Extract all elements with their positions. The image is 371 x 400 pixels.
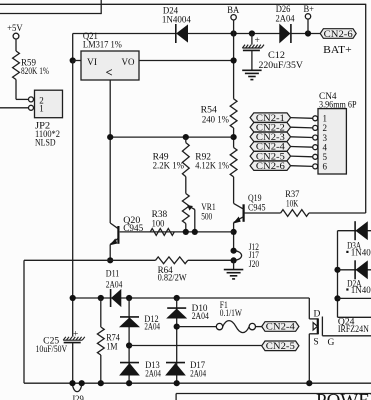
- diode D24: [175, 24, 177, 43]
- connector CN4 body: [318, 109, 346, 174]
- node ADJ rail junction: [107, 134, 113, 140]
- svg-text:3: 3: [323, 133, 328, 143]
- wire R64 row left: [24, 259, 156, 261]
- wire left drop: [23, 260, 25, 383]
- diode D10: [167, 307, 186, 309]
- node right ladder junction: [334, 295, 340, 301]
- svg-text:LM317 1%: LM317 1%: [83, 40, 122, 50]
- svg-text:+: +: [73, 330, 78, 340]
- wire D10 column: [176, 298, 178, 383]
- svg-text:3.96mm 6P: 3.96mm 6P: [319, 99, 357, 109]
- node R49 top junction: [183, 134, 189, 140]
- wire D2A row: [338, 269, 371, 271]
- svg-text:CN2-2: CN2-2: [256, 122, 285, 132]
- wire R74 bottom: [100, 355, 102, 383]
- svg-text:CN2-5: CN2-5: [266, 341, 296, 351]
- wire R59 to JP2 pin2: [15, 80, 17, 100]
- ground under C12: [242, 69, 261, 71]
- connector CN4 pins: [313, 116, 318, 121]
- resistor R64: [156, 257, 188, 264]
- wire drain drop: [308, 298, 310, 319]
- diode D26: [290, 24, 292, 43]
- net tags CN2-1..CN2-6: [250, 113, 291, 122]
- node J17 top: [231, 248, 237, 254]
- wire VI column down to C25: [72, 61, 74, 337]
- wire C12 to ground: [251, 51, 253, 71]
- svg-text:+5V: +5V: [7, 23, 23, 33]
- wire R92 to Q19 collector: [233, 177, 235, 204]
- wire R37 to right rail: [309, 212, 366, 214]
- wire Q20 emitter down: [109, 244, 111, 260]
- svg-text:VI: VI: [87, 58, 97, 68]
- wire D24 to BA node: [188, 33, 281, 35]
- wire CN4 pin leads: [291, 117, 313, 120]
- wire +5V to R59: [15, 39, 17, 51]
- node BA terminal: [231, 15, 236, 20]
- svg-text:1M: 1M: [106, 342, 117, 352]
- wire ADJ pin: [109, 80, 111, 223]
- node VO junction: [231, 57, 237, 63]
- svg-text:CN2-5: CN2-5: [256, 151, 286, 161]
- node Q20 emitter junction: [107, 257, 113, 263]
- capacitor C12: [251, 34, 253, 45]
- node B+ junction: [305, 30, 311, 36]
- svg-text:1: 1: [323, 114, 328, 124]
- svg-text:10K: 10K: [286, 199, 299, 209]
- node C25 top junction: [70, 295, 76, 301]
- potentiometer VR1: [182, 194, 189, 224]
- svg-text:0.82/2W: 0.82/2W: [158, 273, 188, 283]
- wire right lower stub: [338, 316, 371, 318]
- node J17 bottom: [231, 257, 237, 263]
- svg-text:240 1%: 240 1%: [202, 115, 230, 125]
- svg-text:500: 500: [201, 212, 212, 222]
- label D2A value: [346, 288, 348, 290]
- svg-text:1N4004: 1N4004: [162, 14, 191, 24]
- svg-text:4: 4: [323, 143, 328, 153]
- node C12 junction: [249, 30, 255, 36]
- wire R74 top: [100, 298, 102, 327]
- node D10-D17 junction: [174, 324, 180, 330]
- wire ADJ rail: [110, 136, 233, 138]
- wire jumper to ground: [233, 260, 235, 269]
- svg-text:2: 2: [323, 123, 328, 133]
- node BA junction: [231, 30, 237, 36]
- svg-text:NLSD: NLSD: [35, 138, 56, 148]
- ground under J20: [224, 269, 244, 271]
- node B+ terminal: [305, 14, 310, 19]
- svg-text:5: 5: [323, 152, 328, 162]
- wire Q19 emitter down: [233, 223, 235, 251]
- wire R49 top: [185, 137, 187, 143]
- svg-text:2A04: 2A04: [106, 280, 123, 290]
- svg-text:10uF/50V: 10uF/50V: [36, 344, 68, 354]
- wire top rail: [0, 3, 366, 5]
- diode D3A: [354, 221, 356, 240]
- wire VO pin: [139, 60, 234, 62]
- wire D12 column: [128, 298, 130, 383]
- svg-text:2A04: 2A04: [276, 14, 295, 24]
- power box border: [176, 393, 371, 395]
- svg-text:B+: B+: [304, 4, 315, 14]
- svg-text:1: 1: [39, 103, 44, 113]
- resistor R74: [97, 327, 104, 355]
- node D12-D13 junction: [126, 342, 132, 348]
- wire D26 to B+ node: [291, 33, 320, 35]
- svg-text:2A04: 2A04: [190, 369, 206, 379]
- svg-text:D: D: [314, 309, 321, 319]
- svg-text:R54: R54: [201, 104, 218, 114]
- svg-text:R37: R37: [285, 189, 300, 199]
- svg-text:220uF/35V: 220uF/35V: [259, 60, 304, 70]
- net tag CN2-4: [262, 322, 299, 332]
- wire VI column top: [72, 34, 74, 61]
- svg-text:C945: C945: [248, 203, 266, 213]
- net tag CN2-5: [262, 341, 299, 351]
- node VR1 wiper junction: [192, 229, 198, 235]
- wire VI pin: [73, 60, 81, 62]
- wire D10 to fuse: [177, 326, 217, 328]
- svg-text:D11: D11: [106, 269, 120, 279]
- svg-text:<: <: [106, 66, 113, 80]
- svg-text:CN2-1: CN2-1: [256, 113, 285, 123]
- wire top stub: [100, 0, 102, 14]
- svg-text:1N4004: 1N4004: [351, 285, 371, 295]
- diode D11: [110, 289, 112, 307]
- wire bottom rail: [24, 382, 371, 384]
- node D2A junction: [334, 267, 340, 273]
- wire R54 to junction: [233, 128, 235, 148]
- node VR1 bottom junction: [183, 229, 189, 235]
- net tag CN2-6 top: [320, 29, 356, 39]
- svg-text:100: 100: [152, 219, 165, 229]
- node D17 bottom junction: [174, 380, 180, 386]
- svg-text:2A04: 2A04: [192, 311, 210, 321]
- wire BA column: [233, 34, 235, 99]
- svg-text:2.2K 1%: 2.2K 1%: [153, 161, 185, 171]
- resistor R38: [150, 229, 174, 236]
- svg-text:BA: BA: [227, 5, 239, 15]
- node D10 top junction: [174, 295, 180, 301]
- svg-text:2A04: 2A04: [145, 369, 161, 379]
- node R74 top junction: [98, 295, 104, 301]
- svg-text:Q19: Q19: [248, 193, 262, 203]
- node R54-R92 junction: [231, 134, 237, 140]
- diode D17: [166, 362, 185, 364]
- transistor Q20: [117, 226, 119, 244]
- svg-text:J29: J29: [72, 394, 84, 400]
- node D13 bottom junction: [126, 380, 132, 386]
- wire VR1 bottom: [185, 224, 187, 232]
- svg-text:S: S: [313, 337, 318, 347]
- diode D2A: [354, 260, 356, 279]
- node +5V terminal: [13, 33, 19, 39]
- svg-text:+: +: [255, 36, 260, 46]
- connector JP2: [35, 90, 63, 118]
- wiper VR1 arrow: [194, 210, 196, 232]
- wire second top rail: [0, 13, 101, 15]
- wire rectifier row: [73, 297, 310, 299]
- svg-text:820K 1%: 820K 1%: [21, 66, 49, 76]
- wire R64 to jumper: [188, 259, 234, 261]
- svg-text:CN2-3: CN2-3: [256, 132, 286, 142]
- svg-text:G: G: [328, 338, 335, 348]
- svg-text:4.12K 1%: 4.12K 1%: [195, 161, 229, 171]
- wire D3A row: [338, 230, 371, 232]
- node Q24 source junction: [306, 380, 312, 386]
- resistor R37: [281, 210, 309, 217]
- jumper J29: [73, 383, 82, 391]
- node J29 left: [69, 380, 75, 386]
- wire fuse to CN2-4: [256, 326, 262, 328]
- wire right stub row: [338, 297, 371, 299]
- node D12 top junction: [126, 295, 132, 301]
- svg-text:C12: C12: [268, 50, 285, 60]
- transistor Q24 IRFZ24N: [309, 318, 318, 320]
- node Q19 emitter junction: [231, 229, 237, 235]
- resistor R59: [13, 51, 20, 80]
- wire Q19 base: [244, 212, 281, 214]
- wire jumper column: [234, 251, 242, 261]
- svg-text:J20: J20: [249, 259, 260, 269]
- transistor Q19: [243, 204, 245, 222]
- svg-text:CN2-4: CN2-4: [256, 142, 286, 152]
- svg-text:2A04: 2A04: [144, 322, 160, 332]
- svg-text:CN2-6: CN2-6: [256, 161, 286, 171]
- resistor R92: [230, 148, 237, 177]
- resistor R49: [182, 143, 189, 177]
- resistor R54: [230, 99, 237, 128]
- svg-text:D26: D26: [276, 4, 291, 14]
- svg-text:1N4004: 1N4004: [351, 248, 371, 258]
- svg-text:IRFZ24N: IRFZ24N: [338, 324, 369, 334]
- diode D12: [120, 316, 139, 318]
- wire base row: [120, 231, 234, 233]
- diode D13: [120, 362, 139, 364]
- wire right ladder vertical: [337, 231, 339, 318]
- svg-text:CN2-6: CN2-6: [324, 29, 354, 39]
- wire CN2-5 lead: [129, 345, 262, 347]
- svg-text:VO: VO: [122, 58, 135, 68]
- wire right rail vertical: [365, 4, 367, 213]
- wire left edge to JP2 pin1: [0, 107, 28, 109]
- svg-text:6: 6: [323, 162, 328, 172]
- wire R49 to VR1: [185, 177, 187, 194]
- node J29 right: [79, 380, 85, 386]
- label D3A value: [346, 251, 348, 253]
- svg-text:C945: C945: [123, 223, 143, 233]
- fuse F1: [216, 323, 222, 329]
- node VI junction: [70, 57, 76, 63]
- svg-text:0.1/1W: 0.1/1W: [220, 308, 243, 318]
- node R74 bottom junction: [98, 380, 104, 386]
- svg-text:BAT+: BAT+: [323, 44, 352, 56]
- op-amp U21 LM317 body: [81, 51, 139, 80]
- capacitor C25: [63, 337, 66, 340]
- svg-text:CN2-4: CN2-4: [266, 322, 296, 332]
- svg-text:POWER: POWER: [316, 391, 371, 400]
